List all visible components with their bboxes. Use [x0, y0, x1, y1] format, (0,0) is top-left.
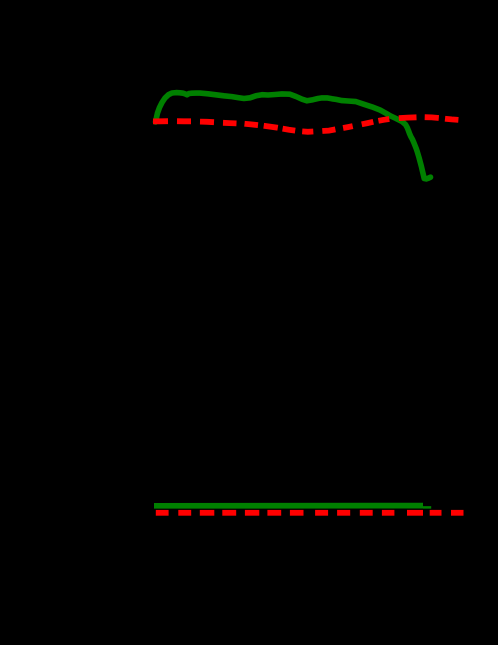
bottom red dashed line	[156, 510, 464, 516]
bottom green line end tail	[423, 506, 431, 509]
bottom green solid line	[154, 503, 423, 509]
top red dashed curve	[153, 117, 458, 132]
top green solid curve	[156, 93, 431, 179]
